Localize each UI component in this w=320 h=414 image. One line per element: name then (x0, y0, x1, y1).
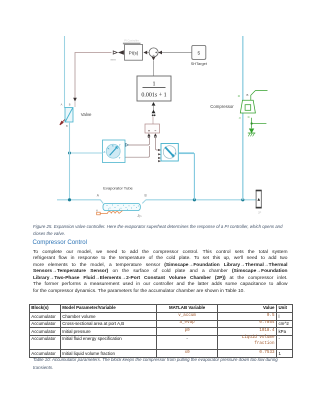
subtract input ports (147, 133, 157, 137)
wire: valve to evaporator line (69, 122, 71, 200)
PID controller PI(s) (123, 43, 143, 61)
valve body (65, 108, 73, 123)
wire: subtract right input from right sensor (155, 138, 160, 150)
evaporator main pipe (left segment) (57, 199, 101, 201)
svg-text:A: A (61, 102, 63, 106)
junction dot (sensor drop) (193, 198, 196, 201)
transfer function filter 1/(0.001s+1) (137, 76, 171, 101)
wire: converter to filter (152, 102, 156, 113)
compressor shaft W (252, 118, 267, 129)
right sensor output ports (left side) (158, 149, 161, 162)
chamber block (accumulator link) (256, 190, 262, 209)
evaporator main pipe (right segment) (146, 199, 256, 201)
svg-text:B: B (247, 93, 249, 97)
sensor: valve outlet P/T sensor (103, 140, 129, 163)
wire: left sensor Ts output (125, 146, 150, 157)
svg-text:Valve: Valve (81, 112, 92, 117)
wire: liquid pipe into valve (64, 36, 66, 108)
wire: filter to sum (152, 57, 156, 76)
svg-text:C: C (248, 115, 250, 119)
svg-text:SHTarget: SHTarget (191, 61, 208, 66)
svg-text:B: B (69, 102, 71, 106)
sensor: evaporator outlet sensor (161, 144, 178, 162)
wire: valve control signal (PI output to valve) (73, 53, 111, 108)
svg-text:H: H (96, 210, 98, 213)
junction dot (valve line) (68, 198, 71, 201)
svg-text:B: B (66, 124, 68, 128)
sum junction (149, 48, 158, 57)
svg-text:mm: mm (111, 57, 117, 61)
valve port labels A B (61, 102, 71, 128)
wire: compressor suction/discharge pipe (242, 36, 244, 200)
svg-text:0.001s + 1: 0.001s + 1 (141, 93, 166, 99)
svg-text:Compressor: Compressor (210, 104, 234, 109)
svg-text:Evaporator Tube: Evaporator Tube (103, 185, 133, 190)
svg-text:PI(s): PI(s) (129, 51, 139, 56)
compressor port marks (238, 93, 250, 120)
compressor discharge wire (251, 91, 268, 100)
valve opening arrow (60, 120, 65, 125)
svg-text:5: 5 (197, 51, 200, 57)
heat flow source (orange) (97, 211, 123, 215)
Simulink-PS converter (mm) (113, 50, 124, 54)
svg-text:T: T (119, 144, 121, 148)
junction dot on valve pipe (68, 152, 71, 155)
svg-text:A: A (97, 194, 100, 198)
PS-Simulink converter (tiny) (152, 114, 156, 116)
svg-text:1: 1 (153, 82, 156, 88)
wire: sum to PI (143, 51, 149, 55)
junction dot (compressor line) (241, 198, 244, 201)
wire: SHTarget to sum (158, 51, 191, 55)
wire: subtract to converter (152, 117, 154, 125)
wire: right sensor to pipe (178, 153, 194, 200)
svg-text:B: B (145, 193, 147, 197)
svg-text:2P: 2P (258, 210, 261, 214)
mechanical rotational reference (ground) (248, 129, 256, 136)
wire: left sensor Tv output to subtract (128, 138, 150, 145)
svg-text:⊙: ⊙ (238, 94, 241, 98)
evaporator tube (100, 200, 145, 211)
svg-text:A: A (103, 150, 105, 154)
constant SHTarget (191, 45, 208, 65)
svg-text:T: T (119, 156, 121, 160)
svg-text:≺: ≺ (238, 116, 241, 120)
svg-text:PI Controller: PI Controller (124, 39, 139, 43)
compressor (240, 100, 255, 113)
subtract block (145, 124, 160, 133)
svg-text:J▷: J▷ (137, 214, 143, 218)
wire: pipe branch to left sensor (70, 152, 103, 154)
svg-text:A: A (175, 151, 177, 155)
